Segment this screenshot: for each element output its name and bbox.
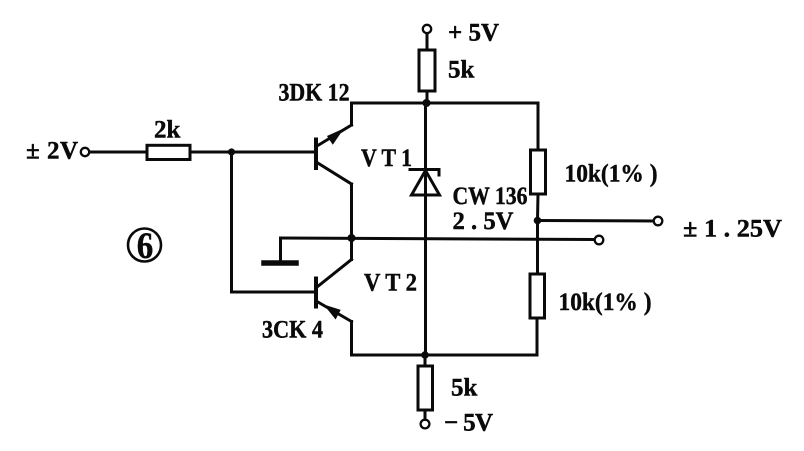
node C top junction — [423, 99, 431, 107]
resistor R2 5k top — [419, 50, 435, 91]
diode Z1 CW136 zener — [410, 103, 440, 355]
node B junction VT emitters middle — [348, 234, 356, 242]
svg-text:2k: 2k — [154, 117, 181, 144]
wire top rail — [352, 102, 539, 105]
svg-text:10k(1% ): 10k(1% ) — [565, 161, 658, 188]
resistor R5 5k bottom — [418, 366, 433, 410]
resistor R1 2k — [147, 145, 190, 159]
terminal: +5V — [423, 25, 431, 33]
terminal: middle rail open circle — [595, 236, 604, 245]
wire output ±1.25V — [538, 219, 654, 223]
svg-text:3DK 12: 3DK 12 — [279, 80, 350, 107]
resistor R3 10k(1%) upper — [531, 150, 546, 194]
svg-text:5k: 5k — [451, 375, 478, 402]
svg-text:V T 2: V T 2 — [364, 270, 417, 297]
wire lower 10k to bottom rail — [536, 318, 539, 355]
svg-text:− 5V: − 5V — [444, 410, 493, 437]
ground — [264, 238, 296, 263]
wire input to 2k — [90, 151, 148, 154]
wire node D down to lower 10k — [536, 221, 539, 275]
wire bottom rail — [352, 354, 538, 357]
node D output junction — [534, 217, 542, 225]
wire 2k to VT1 base — [190, 151, 315, 154]
transistor Q1 VT1 3DK12 — [316, 103, 352, 238]
svg-text:+ 5V: + 5V — [448, 20, 499, 47]
wire +5V to 5k — [426, 34, 429, 51]
resistor R4 10k(1%) lower — [530, 274, 545, 318]
transistor Q2 VT2 3CK4 — [316, 238, 352, 355]
node A junction on base wire — [228, 148, 235, 155]
svg-text:2 . 5V: 2 . 5V — [453, 208, 514, 235]
svg-text:CW 136: CW 136 — [453, 183, 528, 210]
circled figure number 6 — [128, 229, 161, 262]
wire left vertical node A down — [230, 152, 233, 292]
svg-text:± 1 . 25V: ± 1 . 25V — [683, 216, 782, 243]
wire middle rail ground to output — [281, 238, 595, 240]
svg-text:V T 1: V T 1 — [361, 145, 412, 172]
terminal: ±2V input — [81, 148, 89, 156]
terminal: -5V — [421, 420, 430, 429]
terminal: ±1.25V output — [654, 217, 663, 226]
svg-text:10k(1% ): 10k(1% ) — [559, 289, 652, 316]
svg-text:5k: 5k — [448, 57, 475, 84]
node E bottom junction — [421, 351, 429, 359]
wire VT2 base — [232, 291, 315, 294]
svg-text:6: 6 — [137, 226, 154, 267]
svg-text:3CK 4: 3CK 4 — [262, 317, 323, 344]
wire 5k to -5V terminal — [424, 410, 427, 420]
wire 10k to node D — [536, 194, 540, 221]
wire 5k to node C — [426, 91, 429, 103]
svg-text:± 2V: ± 2V — [26, 138, 78, 165]
wire node E to 5k bottom — [424, 355, 427, 366]
wire right vertical from top rail — [537, 103, 540, 150]
